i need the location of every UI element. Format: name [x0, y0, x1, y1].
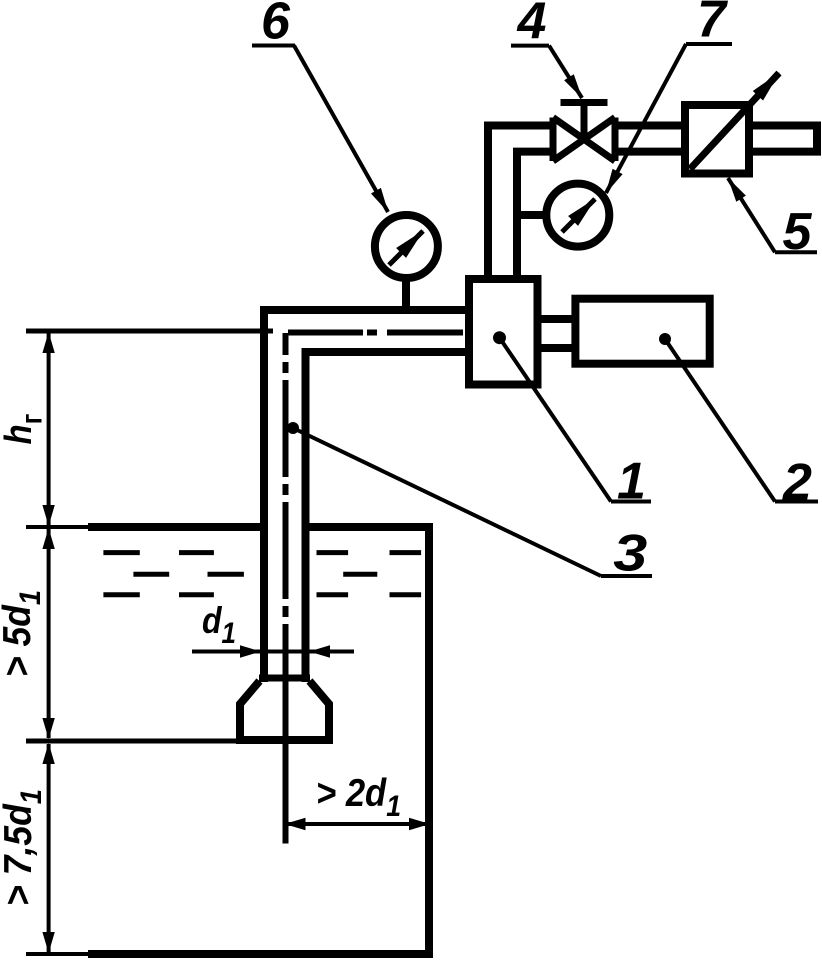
outlet pipe end cap [813, 122, 821, 156]
gauge 6 needle [389, 231, 423, 265]
label 6 underline [252, 44, 295, 48]
valve 4 left end bar [550, 118, 557, 162]
svg-text:7: 7 [697, 0, 728, 49]
label 3 leader line [293, 428, 601, 576]
water surface dashes row1 [103, 550, 421, 555]
bell mouth joint line [259, 675, 310, 682]
dimension >7,5d1 line [47, 744, 51, 952]
riser pipe left line [484, 122, 492, 280]
valve to flowmeter top line [615, 122, 685, 130]
tank water line left [88, 523, 260, 531]
label 4 leader arrow [549, 46, 582, 98]
dimension >2d1 line [286, 822, 430, 826]
label 3 leader dot [287, 422, 299, 434]
shaft bottom line [538, 344, 576, 352]
pump box 1 [469, 279, 538, 385]
valve to flowmeter bottom line [615, 148, 685, 156]
dimension >5d1 line [47, 529, 51, 738]
gauge 7 body [546, 184, 609, 247]
valve 4 stem [581, 103, 588, 140]
label 4 underline [511, 44, 549, 48]
label 3 underline [601, 574, 652, 578]
label 2 leader line [665, 339, 775, 502]
outlet pipe top line [749, 122, 813, 130]
motor box 2 [575, 299, 709, 364]
flow regulator diagonal arrow [690, 73, 779, 169]
label 7 underline [686, 42, 732, 46]
tank bottom [88, 950, 433, 958]
riser pipe right line [513, 152, 521, 279]
shaft top line [538, 315, 576, 323]
riser to valve bottom line [513, 148, 553, 156]
pipe centerline horizontal dash-dot [288, 330, 465, 336]
tank water line left thin extension [26, 525, 88, 529]
label 2 underline [775, 500, 818, 504]
tank right wall [425, 523, 433, 954]
flow regulator box 5 [685, 105, 749, 174]
extension line pipe centerline level [26, 329, 273, 334]
horizontal pipe bottom line [302, 348, 474, 356]
label 2 leader dot [659, 333, 671, 345]
dimension d1 right arrow [310, 650, 334, 654]
svg-text:6: 6 [261, 0, 291, 50]
outlet pipe bottom line [749, 148, 813, 156]
label 7 leader arrow [606, 44, 686, 193]
gauge 6 body [375, 215, 438, 278]
gauge 7 stub [513, 211, 546, 219]
pipe 3 right wall [302, 348, 310, 682]
extension line bell mouth level [26, 739, 240, 744]
label 5 underline [775, 250, 817, 254]
label 6 leader arrow [294, 46, 388, 213]
horizontal pipe top line [260, 306, 473, 314]
valve 4 right end bar [612, 118, 619, 162]
valve 4 body diagonal 2 [553, 118, 615, 162]
pipe 3 left wall [260, 306, 268, 682]
bell mouth outline [240, 681, 329, 740]
water surface dashes row2 [133, 572, 377, 577]
label 1 leader dot [493, 331, 506, 344]
water surface dashes row3 [103, 592, 421, 597]
dimension d1 left arrow [236, 650, 260, 654]
tank bottom thin extension [26, 952, 88, 956]
dimension h_g line [47, 333, 51, 525]
label 5 leader arrow [728, 178, 775, 252]
riser to valve top line [484, 122, 553, 130]
label 1 leader line [500, 338, 612, 502]
label 1 underline [611, 500, 651, 504]
dimension d1 line [192, 650, 354, 654]
pipe centerline vertical dash-dot [283, 333, 289, 676]
tank water line right [310, 523, 434, 531]
valve 4 handle [561, 99, 608, 106]
gauge 7 needle [562, 199, 595, 232]
svg-text:4: 4 [517, 0, 547, 50]
pipe centerline solid through bell mouth [283, 676, 289, 844]
gauge 6 stem [402, 278, 410, 312]
svg-text:3: 3 [613, 524, 647, 582]
valve 4 body diagonal 1 [553, 118, 615, 162]
